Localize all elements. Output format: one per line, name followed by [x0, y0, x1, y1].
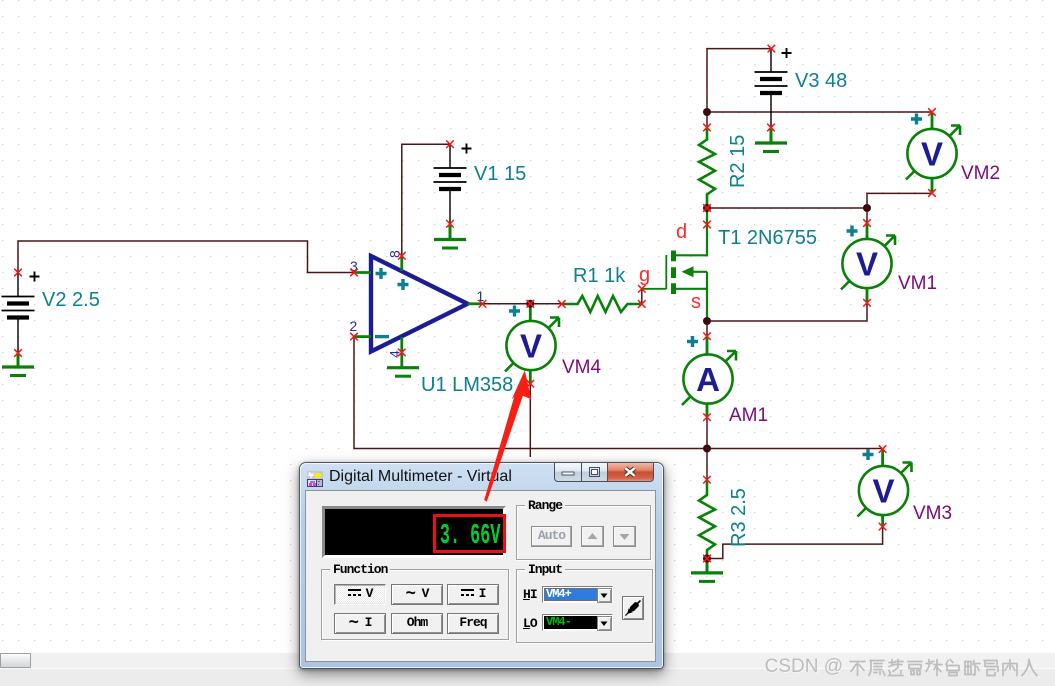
svg-text:VM3: VM3 — [913, 503, 952, 524]
MOSFET terminal letters — [639, 221, 701, 313]
resistor R2 15 — [699, 128, 715, 209]
svg-text:s: s — [691, 291, 701, 313]
ground at R3 — [691, 559, 723, 582]
svg-text:V: V — [520, 328, 542, 365]
voltmeter VM1 — [841, 223, 895, 303]
op-amp U1 LM358 triangle — [371, 256, 468, 352]
node V3/R2/VM2 — [703, 108, 711, 116]
wire AM1 bottom to feedback node — [706, 417, 708, 448]
wire feedback node down to R3 top — [706, 449, 708, 480]
svg-text:VM1: VM1 — [898, 273, 937, 294]
svg-text:VM4: VM4 — [562, 357, 602, 378]
component value labels — [42, 70, 847, 547]
wire V3+ left and down to drain-top node — [707, 49, 771, 112]
wire feedback node right to VM3 top — [707, 448, 883, 450]
wire source node right to VM1 bottom — [707, 303, 867, 321]
wire V2+ up and right to op-amp pin 3 — [18, 241, 354, 273]
svg-text:d: d — [676, 221, 687, 243]
voltmeter VM4 — [505, 306, 559, 384]
svg-text:2: 2 — [350, 318, 358, 334]
svg-text:VM2: VM2 — [961, 163, 1000, 184]
svg-text:V: V — [856, 246, 878, 283]
svg-text:V: V — [872, 473, 894, 510]
svg-text:V1 15: V1 15 — [474, 163, 526, 185]
ground at V2 — [2, 353, 34, 376]
wire op-amp pin 8 up and right to V1+ — [402, 144, 450, 256]
node R3 bottom — [703, 555, 711, 563]
svg-text:R2 15: R2 15 — [727, 135, 749, 188]
wire R1 right up to MOSFET gate — [641, 289, 643, 304]
wire op-amp output pin 1 to R1 left — [483, 303, 562, 305]
node feedback — [703, 445, 711, 453]
MOSFET T1 2N6755 — [642, 208, 707, 321]
ground at V3 — [755, 128, 787, 152]
voltage source V3 48 — [755, 48, 792, 128]
junction node dots — [526, 108, 871, 563]
voltmeter VM2 — [906, 112, 960, 193]
svg-text:V3 48: V3 48 — [795, 70, 847, 92]
svg-text:AM1: AM1 — [729, 405, 768, 426]
resistor R3 2.5 — [699, 480, 715, 559]
node output/VM4 — [526, 300, 534, 308]
wire op-amp pin 2 down and right to feedback node — [354, 337, 707, 449]
op-amp pin stubs — [354, 256, 483, 368]
svg-text:g: g — [639, 264, 650, 286]
node drain — [703, 204, 711, 212]
ground at V1 — [434, 224, 466, 248]
node drain-VM1 — [863, 204, 871, 212]
svg-text:V2 2.5: V2 2.5 — [42, 289, 100, 311]
wire VM1 top branch — [866, 208, 868, 223]
voltage source V2 2.5 — [2, 272, 40, 354]
wire node to R2 top — [706, 112, 708, 128]
wire drain node right to VM1 branch — [707, 193, 932, 208]
svg-text:A: A — [696, 361, 720, 398]
resistor R1 1k — [562, 296, 642, 312]
annotation red arrow to VM4 — [484, 370, 531, 501]
op-amp pin numbers — [350, 250, 485, 358]
node source — [703, 317, 711, 325]
terminal x markers — [14, 45, 936, 563]
wire R3 bottom right to VM3 bottom — [707, 527, 883, 559]
svg-text:R1 1k: R1 1k — [573, 265, 626, 287]
op-amp input polarity marks — [375, 268, 409, 337]
wire source node to AM1 top — [706, 321, 708, 336]
svg-text:R3 2.5: R3 2.5 — [728, 488, 750, 547]
svg-text:V: V — [921, 136, 943, 173]
voltage source V1 15 — [434, 144, 472, 224]
wire node right to VM2 top — [707, 111, 932, 113]
svg-text:T1 2N6755: T1 2N6755 — [718, 227, 817, 249]
meter name labels — [562, 163, 1000, 524]
ammeter AM1 — [682, 336, 736, 417]
svg-text:U1 LM358: U1 LM358 — [421, 374, 513, 396]
voltmeter VM3 — [858, 449, 912, 527]
ground at op-amp pin 4 — [387, 368, 419, 377]
wire VM4 bottom down behind dialog — [529, 384, 531, 457]
